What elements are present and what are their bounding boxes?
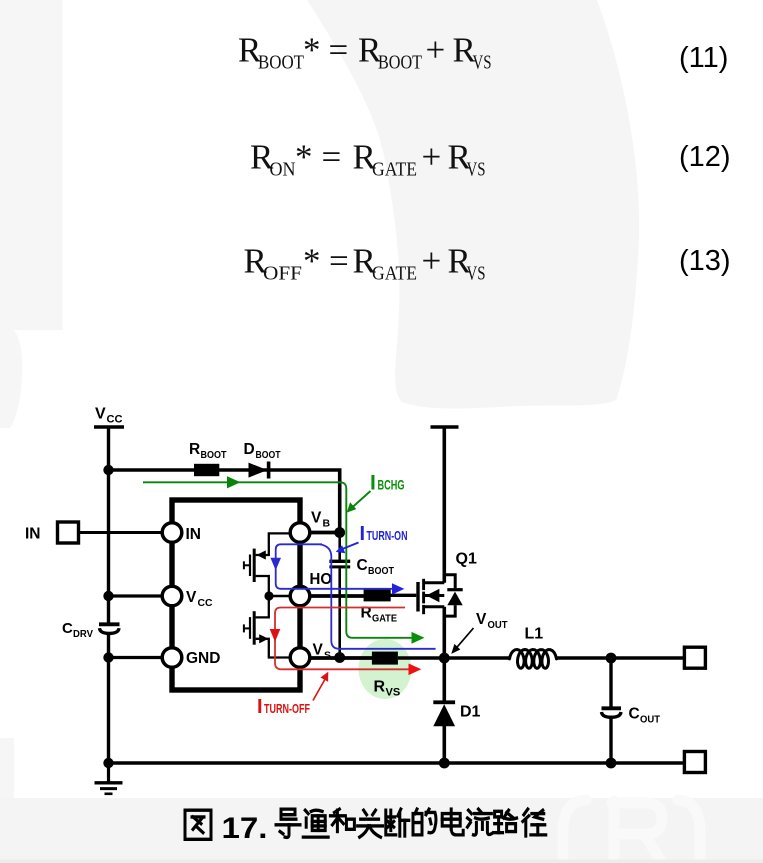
wire VCC vertical upper [107, 427, 110, 623]
pin circle IN [162, 523, 182, 543]
watermark big arc blob [307, 0, 639, 409]
svg-text:V: V [186, 589, 197, 606]
svg-text:(13): (13) [679, 245, 731, 277]
svg-text:*: * [303, 242, 321, 281]
inductor L1 [510, 650, 557, 669]
pointer I_TURN-ON [341, 543, 359, 550]
svg-text:DRV: DRV [73, 628, 93, 640]
svg-text:I: I [360, 523, 366, 545]
wire VB to bootstrap node [308, 531, 342, 535]
transistor Q1 [418, 575, 455, 616]
green path I_BCHG [143, 482, 417, 638]
equation 12 [250, 138, 486, 181]
node COUT bottom [606, 758, 617, 769]
node bootstrap branch [103, 465, 113, 475]
node GND pin [103, 652, 113, 662]
svg-text:BOOT: BOOT [256, 449, 281, 461]
diode D_BOOT [249, 463, 268, 478]
svg-text:HO: HO [310, 571, 333, 588]
svg-text:V: V [313, 642, 324, 659]
svg-text:R: R [374, 679, 386, 696]
svg-text:R: R [189, 441, 200, 458]
watermark (R) glyphs bottom right [563, 800, 700, 863]
node D1 bottom [439, 758, 450, 769]
svg-text:C: C [629, 706, 640, 723]
watermark left blob [0, 330, 22, 428]
node VS [334, 652, 345, 663]
svg-text:B: B [323, 518, 331, 530]
capacitor C_DRV [99, 622, 120, 626]
svg-text:D: D [244, 441, 255, 458]
svg-text:BOOT: BOOT [258, 52, 304, 74]
wire COUT vertical [609, 658, 612, 707]
svg-text:CC: CC [198, 597, 213, 609]
svg-text:(11): (11) [679, 42, 728, 74]
svg-text:I: I [370, 472, 376, 495]
svg-text:=: = [322, 138, 342, 177]
svg-text:=: = [329, 242, 349, 281]
node ground rail [103, 758, 113, 768]
watermark left band [0, 0, 63, 330]
svg-text:=: = [329, 31, 349, 70]
svg-text:VS: VS [386, 687, 401, 699]
pin circle VS [290, 648, 310, 668]
svg-text:V: V [311, 510, 322, 527]
svg-text:GND: GND [186, 650, 220, 667]
resistor R_BOOT [194, 464, 219, 476]
svg-text:TURN-OFF: TURN-OFF [264, 701, 310, 716]
internal upper FET [244, 533, 290, 592]
svg-text:(12): (12) [679, 141, 731, 173]
svg-text:IN: IN [186, 526, 202, 543]
svg-text:BCHG: BCHG [378, 478, 405, 493]
node VB [334, 527, 345, 538]
capacitor C_OUT [602, 706, 622, 710]
svg-text:GATE: GATE [372, 159, 417, 181]
node COUT top [606, 653, 617, 664]
svg-text:VS: VS [467, 159, 486, 181]
terminal square IN [58, 522, 79, 543]
node VCC pin [103, 591, 113, 601]
wire internal HO [269, 595, 290, 598]
svg-text:BOOT: BOOT [368, 565, 394, 577]
wire Q1 source vertical [442, 607, 446, 659]
wire L1 to out [557, 656, 686, 660]
VCC supply bar [94, 425, 124, 429]
svg-text:+: + [426, 31, 446, 70]
pin circle GND [162, 648, 182, 668]
svg-text:VS: VS [473, 52, 492, 74]
equation 11 [238, 31, 492, 74]
watermark bottom-left block [0, 738, 14, 800]
ground symbol [107, 763, 110, 782]
resistor R_GATE [364, 588, 391, 601]
watermark bottom band [0, 798, 763, 863]
wire Q1 drain vertical [442, 427, 446, 583]
blue path turn-on loop [276, 544, 397, 589]
node VOUT [439, 653, 450, 664]
Rvs green highlight [359, 639, 412, 699]
blue path turn-on return [320, 544, 436, 649]
svg-text:*: * [303, 31, 321, 70]
svg-text:V: V [476, 611, 487, 628]
svg-text:*: * [295, 138, 313, 177]
wire GND pin [109, 656, 163, 659]
diode D1 [442, 658, 446, 701]
pin circle VB [290, 523, 310, 543]
terminal square out bottom [684, 752, 705, 773]
svg-text:OUT: OUT [488, 619, 509, 631]
svg-text:IN: IN [25, 526, 41, 543]
svg-text:C: C [357, 557, 368, 574]
svg-text:VS: VS [467, 263, 486, 285]
svg-text:OUT: OUT [640, 714, 661, 726]
svg-text:V: V [95, 406, 106, 423]
caption text [185, 810, 211, 839]
svg-text:D1: D1 [460, 704, 481, 721]
svg-text:+: + [422, 242, 442, 281]
equation 13 [244, 242, 486, 285]
svg-text:TURN-ON: TURN-ON [367, 528, 408, 543]
wire HO to gate [308, 594, 364, 598]
svg-text:BOOT: BOOT [378, 52, 422, 74]
pin circle VCC [162, 586, 182, 606]
svg-text:Q1: Q1 [456, 551, 477, 568]
pointer I_TURN-OFF [313, 677, 327, 701]
svg-text:L1: L1 [525, 626, 544, 643]
supply bar top right [431, 425, 459, 429]
wire VCC vertical lower [107, 634, 110, 765]
svg-text:OFF: OFF [263, 263, 302, 285]
svg-text:I: I [257, 696, 263, 718]
pointer I_BCHG [351, 491, 371, 509]
resistor R_VS [372, 652, 398, 665]
svg-text:+: + [422, 138, 442, 177]
svg-text:CC: CC [107, 414, 123, 426]
internal lower FET [244, 599, 290, 658]
capacitor C_BOOT [338, 533, 341, 561]
bottom rail [109, 761, 686, 765]
node internal HO [264, 591, 273, 600]
pin circle HO [290, 586, 310, 606]
wire VCC pin [109, 594, 163, 597]
wire IN [79, 531, 164, 534]
svg-text:17.: 17. [222, 812, 268, 845]
svg-text:ON: ON [270, 159, 296, 181]
wire VOUT to L1 [444, 656, 510, 660]
red path turn-off [275, 608, 413, 670]
svg-text:BOOT: BOOT [201, 449, 227, 461]
wire VS row [308, 656, 372, 660]
wire bootstrap top [109, 470, 340, 533]
terminal square out top [684, 647, 705, 668]
pointer VOUT [455, 628, 474, 650]
svg-text:C: C [62, 620, 73, 637]
svg-text:GATE: GATE [372, 263, 417, 285]
bottom edge shade [0, 860, 763, 863]
svg-text:GATE: GATE [372, 613, 397, 625]
IC body [172, 500, 300, 690]
